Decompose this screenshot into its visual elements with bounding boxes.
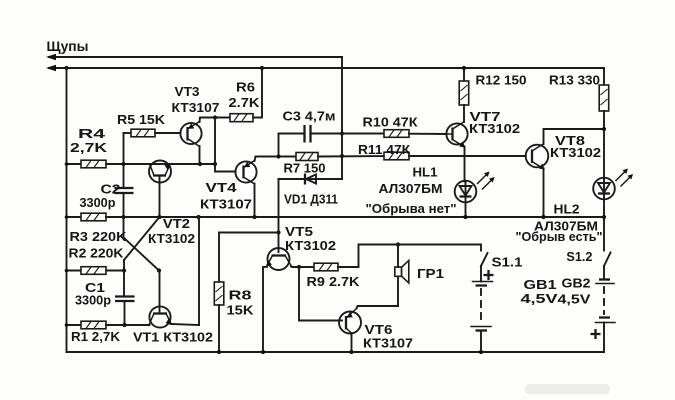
wire common emitter rail y=217 [124, 216, 605, 218]
plus sign GB1 [484, 270, 494, 280]
resistor R2 220K [67, 267, 125, 275]
wire R8 branch horizontal [219, 232, 279, 234]
svg-text:S1.2: S1.2 [566, 249, 592, 264]
wire positive line to GB1 [359, 245, 482, 251]
resistor R9 2.7K [314, 245, 359, 271]
svg-text:R7 150: R7 150 [284, 161, 326, 176]
svg-text:S1.1: S1.1 [492, 255, 523, 270]
node VT5 base / R8 branch [276, 230, 280, 234]
svg-text:КТ3102: КТ3102 [285, 238, 336, 253]
wire left rail [66, 68, 68, 352]
wire diagonal to VT1 collector [124, 238, 160, 271]
wire VD1 cathode to VT5 base vertical [278, 179, 280, 233]
svg-text:КТ3107: КТ3107 [200, 197, 252, 212]
svg-text:КТ3102: КТ3102 [148, 231, 195, 246]
wire C3 branch vertical (x=278.5) [278, 134, 280, 157]
svg-text:4,5V: 4,5V [558, 292, 591, 307]
svg-text:КТ3107: КТ3107 [363, 336, 413, 351]
wire probe line 2 (second probe / top rail) [49, 67, 604, 69]
resistor R8 15K (vertical) [214, 233, 224, 353]
capacitor C1 3300p [115, 297, 135, 326]
svg-text:R10 47К: R10 47К [363, 115, 418, 130]
svg-text:GB1: GB1 [524, 277, 557, 292]
svg-text:3300p: 3300p [80, 195, 116, 210]
wire bottom rail [67, 351, 605, 353]
transistor VT6 KT3107 [339, 309, 361, 353]
svg-text:R9 2.7K: R9 2.7K [307, 274, 361, 289]
transistor VT8 KT3102 [526, 129, 604, 217]
wire probe line 1 (top probe) [49, 56, 342, 58]
probe arrowhead 1 [46, 54, 56, 60]
svg-text:"Обрыва нет": "Обрыва нет" [366, 201, 457, 216]
svg-text:GB2: GB2 [562, 276, 591, 291]
svg-text:HL1: HL1 [413, 165, 438, 180]
resistor R5 15K [124, 129, 181, 137]
resistor R13 330 (vertical) [599, 68, 609, 179]
svg-text:ГР1: ГР1 [417, 266, 444, 281]
node probe1/C3-R10 line [340, 131, 344, 135]
capacitor C2 3300p [115, 188, 134, 217]
speaker ГР1 [395, 245, 409, 283]
svg-text:R3 220K: R3 220K [70, 229, 128, 244]
svg-text:R11 47К: R11 47К [358, 142, 410, 157]
svg-text:КТ3107: КТ3107 [172, 100, 220, 115]
wire VT1 emitter riser to rail [198, 217, 200, 325]
battery GB2 4,5V [596, 280, 616, 353]
resistor R3 220K [67, 213, 124, 221]
svg-text:Щупы: Щупы [47, 39, 89, 54]
LED HL1 АЛ307БМ [455, 172, 495, 218]
svg-text:КТ3102: КТ3102 [550, 145, 601, 160]
wire VT4 base branch (x=215) [215, 118, 236, 172]
svg-text:VT3: VT3 [175, 84, 200, 99]
transistor VT5 KT3102 [263, 248, 314, 352]
switch S1.2 [604, 217, 611, 280]
svg-text:R1 2,7K: R1 2,7K [71, 329, 121, 344]
node probe1/R7-R11 line [340, 154, 344, 158]
diode VD1 Д311 [279, 174, 343, 185]
svg-text:VT5: VT5 [285, 224, 313, 239]
transistor VT3 KT3107 [180, 118, 230, 165]
LED HL2 АЛ307БМ [593, 169, 633, 218]
svg-text:VT1 КТ3102: VT1 КТ3102 [133, 330, 213, 345]
svg-text:"Обрыв есть": "Обрыв есть" [516, 229, 603, 244]
svg-text:2,7K: 2,7K [70, 140, 108, 155]
svg-text:3300p: 3300p [75, 293, 111, 308]
resistor R7 150 [296, 153, 384, 161]
node: left rail top junction [64, 66, 68, 70]
wire probe1 vertical drop (x=342) [316, 57, 342, 179]
transistor VT7 KT3102 [446, 122, 467, 182]
transistor VT2 KT3102 [149, 161, 171, 218]
svg-text:R5 15K: R5 15K [117, 112, 166, 127]
resistor R10 47K [384, 130, 446, 138]
faint scan smudge bottom right [525, 384, 610, 394]
wire VT5 base stub [278, 233, 280, 253]
svg-text:HL2: HL2 [554, 202, 580, 217]
battery GB1 4,5V [471, 282, 493, 353]
capacitor C3 4,7м [279, 125, 385, 143]
svg-text:15K: 15K [227, 303, 255, 318]
wire speaker bottom run [357, 277, 399, 309]
wire VT1 collector vertical [159, 271, 161, 314]
resistor R1 2,7K [67, 321, 150, 329]
resistor R12 150 (vertical) [459, 68, 469, 122]
svg-text:C3 4,7м: C3 4,7м [283, 109, 336, 124]
switch S1.1 [481, 253, 488, 282]
svg-text:R6: R6 [236, 80, 255, 95]
svg-text:VT2: VT2 [163, 216, 190, 231]
transistor VT4 KT3107 [235, 157, 296, 218]
svg-text:VT4: VT4 [206, 180, 238, 195]
svg-text:R4: R4 [78, 126, 106, 141]
resistor R11 47K [384, 152, 526, 160]
wire VT6 base branch [299, 267, 342, 321]
svg-text:R2 220K: R2 220K [69, 246, 125, 261]
wire VT2 base column (x=123.5) R5 corner down to C2 [123, 133, 125, 188]
svg-text:VD1 Д311: VD1 Д311 [284, 192, 338, 207]
svg-text:КТ3102: КТ3102 [469, 121, 520, 136]
resistor R4 2,7K [67, 160, 216, 168]
plus sign GB2 [591, 329, 601, 339]
svg-text:4,5V: 4,5V [521, 291, 558, 306]
resistor R6 2.7K [230, 68, 262, 122]
svg-text:АЛ307БМ: АЛ307БМ [379, 181, 443, 196]
probe arrowhead 2 [46, 65, 56, 71]
svg-text:R13 330: R13 330 [549, 73, 600, 88]
wire diagonal from VT2 emitter rail to C1 column [124, 217, 160, 260]
transistor VT1 KT3102 [149, 306, 199, 327]
wire cross-coupling column below R3 [123, 217, 125, 238]
svg-text:R8: R8 [229, 288, 252, 303]
svg-text:2.7K: 2.7K [229, 95, 261, 110]
svg-text:R12 150: R12 150 [476, 73, 527, 88]
